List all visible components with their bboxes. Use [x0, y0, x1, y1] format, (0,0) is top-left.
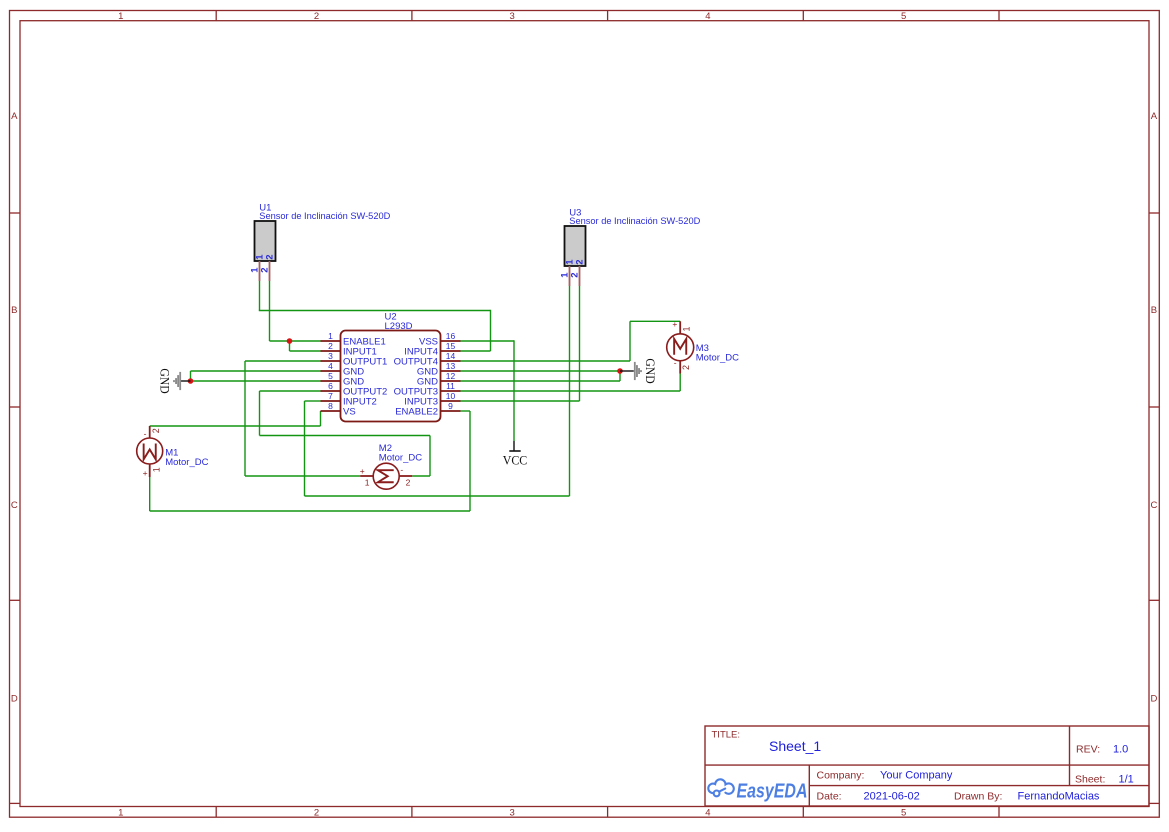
frame ruler tick top 5: [998, 11, 1000, 21]
U2 pin 14 OUTPUT4 stub: [441, 360, 461, 362]
wire net ENABLE2 : horizontal at y511: [150, 510, 470, 512]
svg-text:VS: VS: [343, 406, 356, 417]
U2 pin 11 OUTPUT3 stub: [441, 390, 461, 392]
power symbol VCC : bar: [509, 450, 520, 452]
wire net U3_1 : vertical up to pin7 row: [304, 401, 306, 496]
svg-text:-: -: [400, 465, 403, 475]
wire net U1_1 : horizontal above U2: [259, 310, 491, 312]
wire net OUTPUT4 to M3 pin1 : horizontal from pin 14: [461, 360, 631, 362]
wire net ENABLE2 : vertical up to M1 pin1: [149, 477, 151, 511]
svg-text:Motor_DC: Motor_DC: [696, 352, 739, 363]
wire net U1_2 to ENABLE1/INPUT1 : vertical from U1 pin2: [269, 281, 271, 341]
svg-text:B: B: [11, 305, 17, 316]
title block divider REV column: [1069, 726, 1071, 786]
frame ruler tick top 4: [802, 11, 804, 21]
frame ruler tick left A: [10, 212, 21, 214]
svg-text:13: 13: [446, 361, 456, 371]
svg-text:Drawn By:: Drawn By:: [954, 791, 1002, 803]
svg-text:Sheet:: Sheet:: [1075, 773, 1105, 785]
wire net ENABLE2 : vertical down: [469, 411, 471, 511]
logo EasyEDA cloud icon: [708, 779, 734, 796]
wire net U3_1 : horizontal into INPUT2 pin 7: [305, 400, 321, 402]
svg-text:Date:: Date:: [817, 791, 842, 803]
svg-text:14: 14: [446, 351, 456, 361]
svg-text:1: 1: [118, 807, 123, 818]
wire net ENABLE2 to M1 pin1 : horizontal from pin 9: [461, 410, 471, 412]
svg-text:1: 1: [118, 11, 123, 22]
svg-text:1: 1: [328, 331, 333, 341]
svg-text:9: 9: [448, 401, 453, 411]
wire net U3_2 to INPUT3 : vertical from U3 pin2: [579, 286, 581, 401]
svg-text:1: 1: [681, 326, 691, 331]
frame ruler tick bottom 3: [607, 807, 609, 818]
title block divider logo column: [808, 765, 810, 806]
wire net GND left : horizontal from pin 5: [191, 380, 321, 382]
svg-text:GND: GND: [643, 358, 657, 383]
svg-text:11: 11: [446, 381, 455, 391]
ground symbol GND right : lead: [620, 370, 634, 372]
junction dot net GND right: [617, 368, 623, 374]
wire net U1_1 to U2 pin15 INPUT4 : vertical from U1 pin1: [259, 281, 261, 311]
motor M3 body: [667, 334, 694, 361]
svg-text:Sheet_1: Sheet_1: [769, 738, 821, 754]
U2 pin 1 ENABLE1 stub: [321, 340, 341, 342]
wire net OUTPUT2 : vertical down to M2 pin2 row: [429, 436, 431, 477]
wire net VS to M1 pin2 : vertical from VS pin 8: [320, 411, 322, 426]
wire net VS : horizontal to motor M1 top: [150, 425, 321, 427]
svg-text:5: 5: [901, 11, 906, 22]
svg-text:ENABLE2: ENABLE2: [395, 406, 438, 417]
svg-text:TITLE:: TITLE:: [712, 729, 741, 740]
svg-text:12: 12: [446, 371, 456, 381]
motor M2 body: [373, 463, 399, 489]
U2 pin 5 GND stub: [321, 380, 341, 382]
wire net VSS : vertical down to VCC symbol: [513, 340, 515, 441]
svg-text:2: 2: [264, 255, 275, 260]
wire net OUTPUT2 to M2 pin2 : horizontal from pin 6: [260, 390, 321, 392]
sensor U3 body: [565, 226, 586, 266]
frame ruler tick bottom 2: [411, 807, 413, 818]
svg-text:VCC: VCC: [503, 453, 528, 467]
motor M1 body: [137, 438, 163, 464]
svg-text:L293D: L293D: [385, 321, 413, 332]
junction dot net U1_2: [287, 338, 293, 344]
wire net OUTPUT2 : vertical down: [259, 391, 261, 436]
svg-text:Motor_DC: Motor_DC: [379, 452, 422, 463]
svg-text:5: 5: [328, 371, 333, 381]
svg-text:Motor_DC: Motor_DC: [165, 457, 208, 468]
U2 pin 12 GND stub: [441, 380, 461, 382]
frame ruler tick left B: [10, 406, 21, 408]
motor M1 pin 2 stub: [149, 426, 151, 438]
motor M3 pin 1 stub: [679, 321, 681, 334]
ground symbol GND left : bar 2: [177, 375, 179, 387]
svg-text:6: 6: [328, 381, 333, 391]
frame ruler tick bottom 5: [998, 807, 1000, 818]
frame ruler tick right B: [1149, 406, 1159, 408]
motor M2 pin 1 stub: [360, 475, 373, 477]
frame ruler band end tick left bottom: [10, 802, 21, 804]
frame ruler tick bottom 1: [215, 807, 217, 818]
ground symbol GND right : bar 4: [640, 370, 642, 372]
U3 pin 2 stub: [579, 266, 581, 286]
U1 pin 2 stub: [269, 261, 271, 281]
junction dot net GND left: [188, 378, 194, 384]
wire net U1_2 : horizontal into ENABLE1 pin 1: [270, 340, 321, 342]
U2 pin 10 INPUT3 stub: [441, 400, 461, 402]
svg-text:D: D: [11, 693, 18, 704]
svg-text:2: 2: [681, 365, 691, 370]
ground symbol GND left : bar 3: [175, 378, 177, 384]
svg-text:1.0: 1.0: [1113, 744, 1128, 756]
svg-text:REV:: REV:: [1076, 744, 1100, 756]
frame ruler tick top 1: [215, 11, 217, 21]
svg-text:2: 2: [314, 11, 319, 22]
ground symbol GND left : lead: [181, 380, 191, 382]
wire net U1_2 : branch horizontal into INPUT1 pin 2: [290, 350, 321, 352]
svg-text:5: 5: [901, 807, 906, 818]
svg-text:B: B: [1151, 305, 1157, 316]
U2 pin 8 VS stub: [321, 410, 341, 412]
op-amp U2 L293D body: [341, 331, 441, 422]
wire net OUTPUT4 : horizontal into M3 pin1: [630, 320, 680, 322]
wire net GND right : vertical drop: [619, 371, 621, 381]
ground symbol GND left : bar 4: [173, 380, 175, 382]
wire net OUTPUT1 to M2 pin1 : horizontal from pin 3: [245, 360, 321, 362]
svg-text:GND: GND: [157, 368, 171, 393]
motor M2 pin 2 stub: [399, 475, 412, 477]
svg-text:FernandoMacias: FernandoMacias: [1018, 791, 1100, 803]
svg-text:1: 1: [365, 477, 370, 487]
svg-text:+: +: [143, 468, 148, 478]
svg-text:+: +: [360, 466, 365, 476]
svg-text:4: 4: [328, 361, 333, 371]
svg-text:3: 3: [510, 807, 515, 818]
ground symbol GND right : bar 1: [634, 362, 636, 380]
svg-text:Sensor de Inclinación SW-520D: Sensor de Inclinación SW-520D: [259, 211, 390, 222]
wire net U1_2 : branch vertical at junction: [289, 341, 291, 351]
U2 pin 9 ENABLE2 stub: [441, 410, 461, 412]
frame ruler tick top 3: [607, 11, 609, 21]
wire net OUTPUT4 : vertical up: [629, 321, 631, 361]
svg-text:15: 15: [446, 341, 456, 351]
U3 pin 1 stub: [569, 266, 571, 286]
U2 pin 4 GND stub: [321, 370, 341, 372]
wire net OUTPUT2 : horizontal at y435.5: [260, 435, 431, 437]
frame ruler tick bottom 4: [802, 807, 804, 818]
motor M3 letter M: [674, 339, 686, 355]
wire net U1_1 : horizontal into INPUT4 pin 15: [461, 350, 491, 352]
svg-text:C: C: [1150, 500, 1157, 511]
wire net OUTPUT1 : vertical down: [244, 361, 246, 476]
motor M3 pin 2 stub: [679, 361, 681, 374]
svg-text:3: 3: [328, 351, 333, 361]
svg-text:2: 2: [314, 807, 319, 818]
svg-text:2: 2: [151, 428, 161, 433]
svg-text:16: 16: [446, 331, 456, 341]
svg-text:+: +: [672, 319, 677, 329]
svg-text:2: 2: [574, 260, 585, 265]
title block divider title row: [705, 764, 1149, 766]
wire net VSS to VCC : horizontal from pin 16: [461, 340, 515, 342]
svg-text:2: 2: [570, 273, 581, 278]
frame ruler tick top 2: [411, 11, 413, 21]
wire net GND left : vertical drop: [190, 371, 192, 381]
wire net GND left : horizontal from pin 4: [191, 370, 321, 372]
title block divider date row: [809, 785, 1149, 787]
motor M1 pin 1 stub: [149, 464, 151, 477]
svg-text:C: C: [11, 500, 18, 511]
power symbol VCC : stem: [513, 441, 515, 451]
motor M1 letter M (rotated 180): [144, 444, 156, 460]
svg-text:A: A: [11, 111, 18, 122]
svg-text:Company:: Company:: [817, 770, 865, 782]
frame ruler tick right A: [1149, 212, 1159, 214]
svg-text:4: 4: [705, 11, 710, 22]
wire net OUTPUT3 to M3 pin2 : horizontal from pin 11: [461, 390, 681, 392]
wire net U3_2 : horizontal into INPUT3 pin 10: [461, 400, 580, 402]
title block outer box: [705, 726, 1149, 806]
svg-text:2: 2: [328, 341, 333, 351]
U2 pin 6 OUTPUT2 stub: [321, 390, 341, 392]
ground symbol GND right : bar 3: [638, 368, 640, 374]
U2 pin 2 INPUT1 stub: [321, 350, 341, 352]
svg-text:4: 4: [705, 807, 710, 818]
ground symbol GND right : bar 2: [636, 365, 638, 377]
U2 pin 13 GND stub: [441, 370, 461, 372]
U2 pin 16 VSS stub: [441, 340, 461, 342]
wire net GND right : horizontal from pin 13: [461, 370, 621, 372]
wire net GND right : horizontal from pin 12: [461, 380, 621, 382]
wire net OUTPUT2 : horizontal into M2 pin2: [412, 475, 430, 477]
U2 pin 15 INPUT4 stub: [441, 350, 461, 352]
wire net U3_1 to INPUT2 : vertical from U3 pin1: [569, 286, 571, 496]
svg-text:2: 2: [406, 477, 411, 487]
sensor U1 body: [255, 221, 276, 261]
svg-text:10: 10: [446, 391, 456, 401]
ground symbol GND left : bar 1: [179, 372, 181, 390]
frame ruler tick left C: [10, 599, 21, 601]
svg-text:7: 7: [328, 391, 333, 401]
svg-text:Sensor de Inclinación SW-520D: Sensor de Inclinación SW-520D: [569, 216, 700, 227]
wire net OUTPUT1 : horizontal into M2 pin1: [245, 475, 360, 477]
U2 pin 3 OUTPUT1 stub: [321, 360, 341, 362]
svg-text:EasyEDA: EasyEDA: [737, 779, 808, 802]
svg-text:Your Company: Your Company: [880, 770, 953, 782]
svg-text:2: 2: [260, 268, 271, 273]
svg-text:D: D: [1150, 693, 1157, 704]
wire net U3_1 : horizontal at y496: [305, 495, 570, 497]
svg-text:A: A: [1151, 111, 1158, 122]
svg-text:8: 8: [328, 401, 333, 411]
motor M2 letter M (rotated -90): [378, 470, 394, 482]
svg-text:-: -: [144, 429, 147, 439]
wire net OUTPUT3 : vertical up to M3 pin2: [679, 374, 681, 392]
frame ruler tick right C: [1149, 599, 1159, 601]
frame ruler band end tick right bottom: [1149, 802, 1159, 804]
svg-text:-: -: [674, 358, 677, 368]
svg-text:2021-06-02: 2021-06-02: [864, 791, 920, 803]
svg-text:1: 1: [151, 467, 161, 472]
svg-text:3: 3: [510, 11, 515, 22]
wire net U1_1 : vertical down to pin15 row: [490, 310, 492, 351]
svg-text:1/1: 1/1: [1119, 773, 1134, 785]
U1 pin 1 stub: [259, 261, 261, 281]
U2 pin 7 INPUT2 stub: [321, 400, 341, 402]
